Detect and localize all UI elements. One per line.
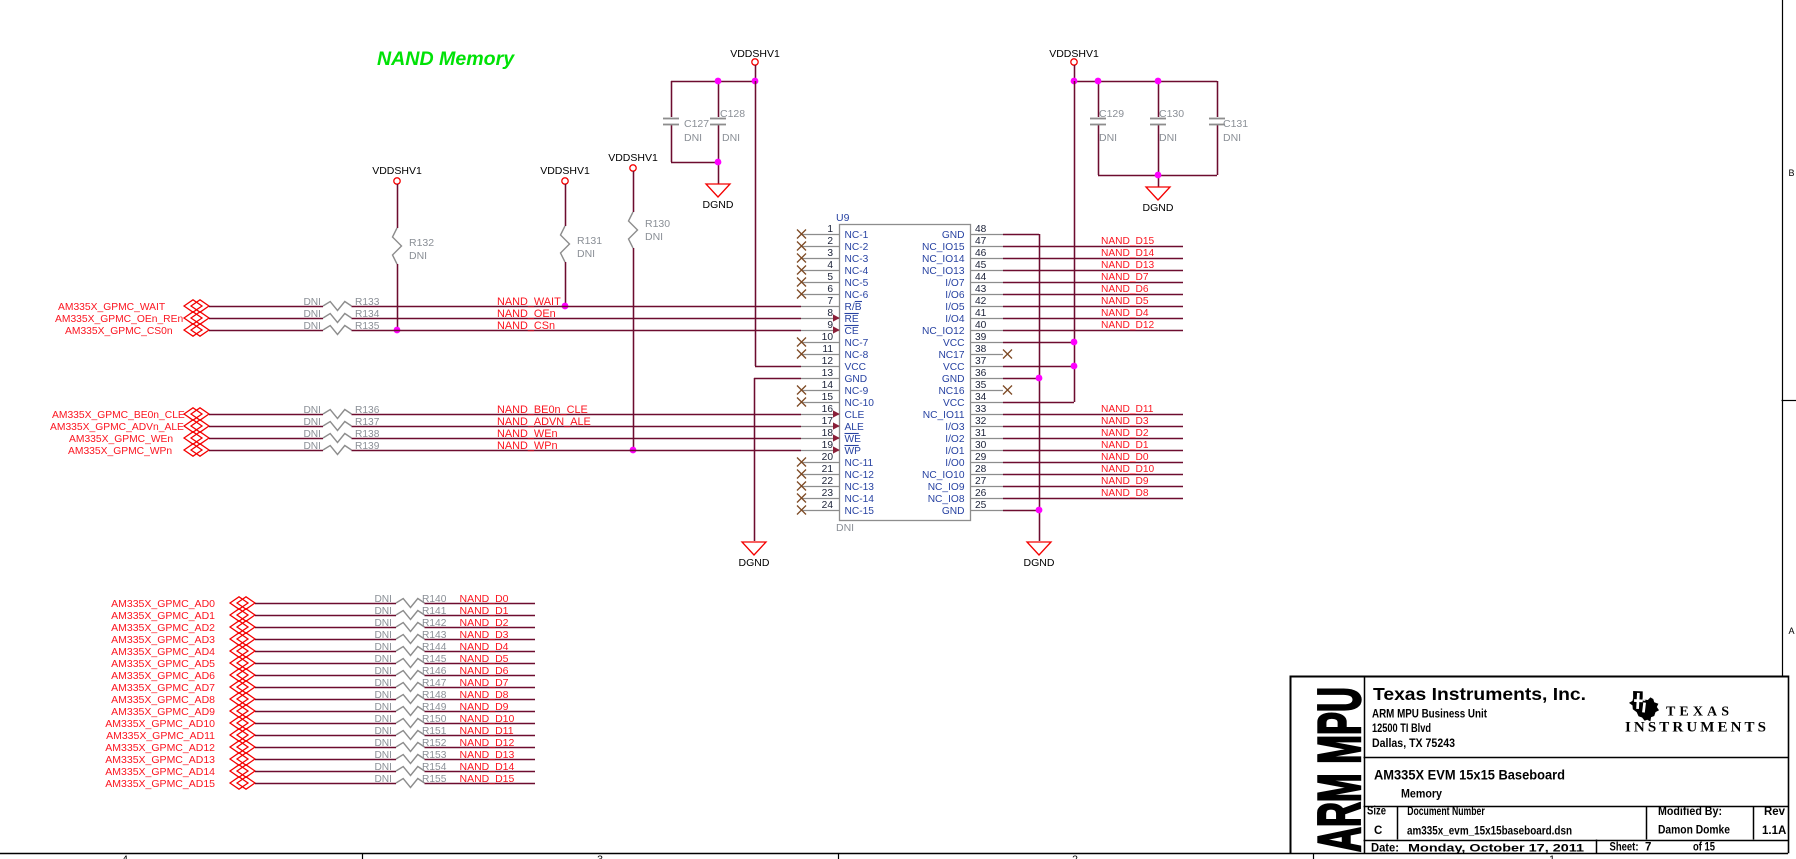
svg-text:2: 2 (1072, 854, 1078, 859)
svg-text:Sheet:: Sheet: (1610, 842, 1639, 854)
svg-text:6: 6 (827, 284, 833, 295)
svg-text:R143: R143 (422, 630, 447, 641)
svg-text:DNI: DNI (374, 618, 392, 629)
svg-text:I/O3: I/O3 (945, 422, 965, 433)
svg-text:26: 26 (975, 488, 987, 499)
svg-text:36: 36 (975, 368, 987, 379)
svg-text:R134: R134 (355, 309, 380, 320)
svg-text:3: 3 (827, 248, 833, 259)
svg-text:AM335X_GPMC_AD12: AM335X_GPMC_AD12 (105, 742, 215, 754)
svg-text:WP: WP (845, 446, 862, 457)
svg-text:34: 34 (975, 392, 987, 403)
svg-text:NAND_D2: NAND_D2 (460, 617, 509, 629)
svg-text:C128: C128 (720, 108, 745, 120)
svg-text:DNI: DNI (374, 762, 392, 773)
svg-text:NAND_D5: NAND_D5 (1101, 296, 1149, 307)
svg-text:DNI: DNI (374, 726, 392, 737)
svg-text:R138: R138 (355, 429, 380, 440)
svg-text:5: 5 (827, 272, 833, 283)
svg-text:I/O4: I/O4 (945, 314, 965, 325)
svg-text:ARM MPU: ARM MPU (1306, 687, 1373, 852)
svg-text:31: 31 (975, 428, 987, 439)
svg-text:NC-3: NC-3 (845, 254, 869, 265)
svg-text:14: 14 (822, 380, 834, 391)
svg-text:10: 10 (822, 332, 834, 343)
svg-text:NC_IO13: NC_IO13 (922, 266, 965, 277)
svg-text:NC_IO9: NC_IO9 (928, 482, 965, 493)
svg-text:DNI: DNI (1099, 132, 1117, 144)
svg-text:NAND_D0: NAND_D0 (1101, 452, 1149, 463)
svg-text:NC-4: NC-4 (845, 266, 869, 277)
svg-text:AM335X_GPMC_AD8: AM335X_GPMC_AD8 (111, 694, 215, 706)
svg-text:AM335X_GPMC_AD1: AM335X_GPMC_AD1 (111, 610, 215, 622)
svg-text:NC-2: NC-2 (845, 242, 869, 253)
svg-text:DNI: DNI (303, 429, 321, 440)
svg-text:R136: R136 (355, 405, 380, 416)
svg-text:CLE: CLE (845, 410, 865, 421)
svg-text:NAND_D7: NAND_D7 (1101, 272, 1149, 283)
svg-text:NC_IO15: NC_IO15 (922, 242, 965, 253)
svg-text:B: B (1788, 168, 1794, 178)
svg-text:DNI: DNI (374, 690, 392, 701)
svg-text:A: A (1788, 626, 1794, 636)
svg-text:AM335X_GPMC_AD10: AM335X_GPMC_AD10 (105, 718, 215, 730)
svg-text:19: 19 (822, 440, 834, 451)
svg-text:AM335X_GPMC_WAIT: AM335X_GPMC_WAIT (58, 302, 166, 313)
svg-text:DGND: DGND (703, 199, 734, 211)
svg-text:24: 24 (822, 500, 834, 511)
svg-text:4: 4 (122, 854, 128, 859)
svg-text:DGND: DGND (1143, 202, 1174, 214)
svg-text:13: 13 (822, 368, 834, 379)
svg-text:GND: GND (942, 506, 965, 517)
svg-text:DNI: DNI (1223, 132, 1241, 144)
svg-text:DNI: DNI (303, 405, 321, 416)
svg-text:43: 43 (975, 284, 987, 295)
svg-text:ALE: ALE (845, 422, 864, 433)
svg-text:NC-6: NC-6 (845, 290, 869, 301)
svg-text:R146: R146 (422, 666, 447, 677)
svg-text:RE: RE (845, 314, 859, 325)
svg-text:Date:: Date: (1371, 843, 1399, 855)
svg-text:DNI: DNI (374, 630, 392, 641)
svg-text:33: 33 (975, 404, 987, 415)
svg-text:AM335X_GPMC_AD11: AM335X_GPMC_AD11 (106, 730, 215, 742)
svg-text:NC-10: NC-10 (845, 398, 875, 409)
svg-text:Memory: Memory (1401, 789, 1443, 801)
svg-text:DNI: DNI (374, 678, 392, 689)
svg-text:AM335X_GPMC_AD3: AM335X_GPMC_AD3 (111, 634, 215, 646)
svg-text:DNI: DNI (374, 714, 392, 725)
svg-text:R144: R144 (422, 642, 447, 653)
svg-text:VDDSHV1: VDDSHV1 (730, 48, 780, 60)
svg-text:AM335X_GPMC_AD0: AM335X_GPMC_AD0 (111, 598, 215, 610)
svg-text:C130: C130 (1159, 108, 1184, 120)
svg-text:CE: CE (845, 326, 859, 337)
svg-text:GND: GND (942, 374, 965, 385)
svg-text:Modified By:: Modified By: (1658, 806, 1722, 818)
svg-text:16: 16 (822, 404, 834, 415)
svg-text:NAND_D5: NAND_D5 (460, 653, 509, 665)
svg-text:Size: Size (1367, 806, 1386, 818)
svg-text:NC_IO8: NC_IO8 (928, 494, 965, 505)
svg-text:29: 29 (975, 452, 987, 463)
svg-text:NAND_D9: NAND_D9 (1101, 476, 1149, 487)
svg-text:NAND_D15: NAND_D15 (1101, 236, 1155, 247)
svg-text:NAND_D3: NAND_D3 (1101, 416, 1149, 427)
svg-text:NAND_ADVN_ALE: NAND_ADVN_ALE (497, 416, 591, 428)
svg-text:am335x_evm_15x15baseboard.dsn: am335x_evm_15x15baseboard.dsn (1407, 826, 1572, 838)
svg-text:DNI: DNI (1159, 132, 1177, 144)
svg-text:DNI: DNI (374, 642, 392, 653)
svg-text:AM335X_GPMC_OEn_REn: AM335X_GPMC_OEn_REn (55, 314, 183, 325)
svg-text:R150: R150 (422, 714, 447, 725)
svg-text:I/O7: I/O7 (945, 278, 965, 289)
svg-text:GND: GND (845, 374, 868, 385)
svg-text:NC-7: NC-7 (845, 338, 869, 349)
svg-text:39: 39 (975, 332, 987, 343)
svg-text:NC_IO10: NC_IO10 (922, 470, 965, 481)
svg-text:VCC: VCC (943, 362, 965, 373)
svg-text:DNI: DNI (684, 132, 702, 144)
svg-text:TEXAS: TEXAS (1666, 705, 1729, 720)
svg-text:NC-1: NC-1 (845, 230, 869, 241)
svg-text:NAND_BE0n_CLE: NAND_BE0n_CLE (497, 404, 588, 416)
svg-text:NAND_CSn: NAND_CSn (497, 320, 555, 332)
svg-text:R148: R148 (422, 690, 447, 701)
svg-text:NC-14: NC-14 (845, 494, 875, 505)
svg-text:DNI: DNI (374, 750, 392, 761)
svg-text:NAND_D4: NAND_D4 (460, 641, 509, 653)
svg-text:NAND_D8: NAND_D8 (460, 689, 509, 701)
svg-text:NAND_D13: NAND_D13 (1101, 260, 1155, 271)
svg-text:NAND_D15: NAND_D15 (460, 773, 515, 785)
svg-text:AM335X_GPMC_BE0n_CLE: AM335X_GPMC_BE0n_CLE (52, 410, 185, 421)
svg-text:VDDSHV1: VDDSHV1 (1049, 48, 1099, 60)
svg-text:NAND_D1: NAND_D1 (460, 605, 509, 617)
svg-text:NAND_D13: NAND_D13 (460, 749, 515, 761)
svg-text:R/B: R/B (845, 302, 862, 313)
svg-text:of 15: of 15 (1693, 842, 1715, 854)
svg-text:NAND_D10: NAND_D10 (1101, 464, 1155, 475)
svg-text:DNI: DNI (303, 297, 321, 308)
svg-text:U9: U9 (836, 212, 850, 224)
svg-text:Dallas, TX 75243: Dallas, TX 75243 (1372, 738, 1455, 750)
svg-text:2: 2 (827, 236, 833, 247)
svg-text:C: C (1374, 825, 1382, 837)
svg-text:NC_IO11: NC_IO11 (923, 410, 965, 421)
svg-text:DNI: DNI (722, 132, 740, 144)
svg-text:11: 11 (822, 344, 833, 355)
svg-text:AM335X_GPMC_WPn: AM335X_GPMC_WPn (68, 446, 172, 457)
svg-text:NAND_OEn: NAND_OEn (497, 308, 556, 320)
svg-text:DNI: DNI (374, 594, 392, 605)
svg-text:40: 40 (975, 320, 987, 331)
svg-text:AM335X_GPMC_AD14: AM335X_GPMC_AD14 (105, 766, 215, 778)
svg-text:R147: R147 (422, 678, 447, 689)
svg-text:41: 41 (975, 308, 987, 319)
svg-text:35: 35 (975, 380, 987, 391)
svg-text:AM335X_GPMC_AD9: AM335X_GPMC_AD9 (111, 706, 215, 718)
svg-text:37: 37 (975, 356, 987, 367)
svg-text:C127: C127 (684, 118, 709, 130)
svg-text:AM335X_GPMC_WEn: AM335X_GPMC_WEn (69, 434, 173, 445)
svg-text:NAND_D7: NAND_D7 (460, 677, 509, 689)
svg-text:DGND: DGND (739, 557, 770, 569)
svg-text:NAND Memory: NAND Memory (377, 48, 515, 70)
svg-text:DNI: DNI (645, 231, 663, 243)
svg-text:I/O6: I/O6 (945, 290, 965, 301)
svg-text:AM335X_GPMC_AD5: AM335X_GPMC_AD5 (111, 658, 215, 670)
svg-text:12500 TI Blvd: 12500 TI Blvd (1372, 723, 1431, 735)
svg-text:I/O0: I/O0 (945, 458, 965, 469)
svg-text:I/O5: I/O5 (945, 302, 965, 313)
svg-text:C129: C129 (1099, 108, 1124, 120)
svg-text:7: 7 (1645, 842, 1651, 854)
svg-text:DNI: DNI (374, 606, 392, 617)
svg-text:ARM MPU Business Unit: ARM MPU Business Unit (1372, 709, 1487, 721)
svg-text:47: 47 (975, 236, 987, 247)
svg-text:DNI: DNI (374, 702, 392, 713)
svg-text:NAND_D11: NAND_D11 (1101, 404, 1154, 415)
svg-text:I/O1: I/O1 (945, 446, 965, 457)
svg-text:VCC: VCC (943, 398, 965, 409)
svg-text:NC_IO14: NC_IO14 (922, 254, 965, 265)
svg-text:7: 7 (827, 296, 833, 307)
svg-text:NAND_D14: NAND_D14 (1101, 248, 1155, 259)
svg-text:Monday, October 17, 2011: Monday, October 17, 2011 (1408, 843, 1584, 855)
svg-text:AM335X_GPMC_CS0n: AM335X_GPMC_CS0n (65, 326, 173, 337)
svg-text:R152: R152 (422, 738, 447, 749)
svg-text:NC-12: NC-12 (845, 470, 875, 481)
svg-text:1: 1 (827, 224, 833, 235)
svg-text:NC-5: NC-5 (845, 278, 869, 289)
svg-text:23: 23 (822, 488, 834, 499)
svg-text:15: 15 (822, 392, 834, 403)
svg-text:AM335X_GPMC_AD15: AM335X_GPMC_AD15 (105, 778, 215, 790)
svg-text:Document Number: Document Number (1407, 806, 1485, 818)
svg-text:R145: R145 (422, 654, 447, 665)
svg-text:46: 46 (975, 248, 987, 259)
svg-text:DNI: DNI (303, 309, 321, 320)
svg-text:NC-8: NC-8 (845, 350, 869, 361)
svg-text:NAND_WPn: NAND_WPn (497, 440, 558, 452)
svg-text:C131: C131 (1223, 118, 1248, 130)
svg-text:3: 3 (597, 854, 603, 859)
svg-text:R149: R149 (422, 702, 447, 713)
svg-text:VCC: VCC (845, 362, 867, 373)
svg-text:22: 22 (822, 476, 834, 487)
svg-text:VDDSHV1: VDDSHV1 (540, 165, 590, 177)
svg-text:NC_IO12: NC_IO12 (922, 326, 965, 337)
svg-text:48: 48 (975, 224, 987, 235)
svg-text:NAND_D12: NAND_D12 (1101, 320, 1155, 331)
svg-text:30: 30 (975, 440, 987, 451)
svg-text:NAND_D3: NAND_D3 (460, 629, 509, 641)
svg-text:VDDSHV1: VDDSHV1 (372, 165, 422, 177)
svg-text:25: 25 (975, 500, 987, 511)
svg-text:Damon Domke: Damon Domke (1658, 825, 1730, 837)
svg-text:NAND_D12: NAND_D12 (460, 737, 515, 749)
svg-text:R151: R151 (422, 726, 447, 737)
svg-text:AM335X_GPMC_AD7: AM335X_GPMC_AD7 (111, 682, 215, 694)
svg-text:28: 28 (975, 464, 987, 475)
svg-text:R142: R142 (422, 618, 447, 629)
svg-text:38: 38 (975, 344, 987, 355)
svg-text:NAND_D6: NAND_D6 (460, 665, 509, 677)
svg-text:4: 4 (827, 260, 833, 271)
svg-text:Texas Instruments, Inc.: Texas Instruments, Inc. (1373, 684, 1586, 704)
svg-text:AM335X_GPMC_AD13: AM335X_GPMC_AD13 (105, 754, 215, 766)
svg-text:DGND: DGND (1024, 557, 1055, 569)
svg-text:R137: R137 (355, 417, 380, 428)
svg-text:GND: GND (942, 230, 965, 241)
svg-text:AM335X_GPMC_ADVn_ALE: AM335X_GPMC_ADVn_ALE (50, 422, 184, 433)
svg-text:NC-15: NC-15 (845, 506, 875, 517)
svg-text:NAND_D14: NAND_D14 (460, 761, 515, 773)
svg-text:AM335X_GPMC_AD2: AM335X_GPMC_AD2 (111, 622, 215, 634)
svg-text:NC-11: NC-11 (845, 458, 874, 469)
svg-text:AM335X_GPMC_AD6: AM335X_GPMC_AD6 (111, 670, 215, 682)
svg-text:R141: R141 (422, 606, 447, 617)
svg-text:AM335X_GPMC_AD4: AM335X_GPMC_AD4 (111, 646, 215, 658)
svg-text:DNI: DNI (303, 417, 321, 428)
svg-text:NC17: NC17 (938, 350, 964, 361)
svg-text:12: 12 (822, 356, 834, 367)
svg-text:NAND_D2: NAND_D2 (1101, 428, 1149, 439)
svg-text:NAND_D0: NAND_D0 (460, 593, 509, 605)
svg-text:DNI: DNI (374, 666, 392, 677)
svg-text:NAND_D6: NAND_D6 (1101, 284, 1149, 295)
svg-text:Rev: Rev (1764, 806, 1786, 818)
svg-text:VDDSHV1: VDDSHV1 (608, 152, 658, 164)
svg-text:DNI: DNI (374, 738, 392, 749)
svg-text:NAND_D9: NAND_D9 (460, 701, 509, 713)
svg-text:NAND_D10: NAND_D10 (460, 713, 515, 725)
svg-text:NAND_D1: NAND_D1 (1101, 440, 1149, 451)
svg-text:R155: R155 (422, 774, 447, 785)
svg-text:R132: R132 (409, 237, 434, 249)
svg-text:42: 42 (975, 296, 987, 307)
svg-text:8: 8 (827, 308, 833, 319)
svg-text:DNI: DNI (577, 248, 595, 260)
svg-text:R153: R153 (422, 750, 447, 761)
svg-text:DNI: DNI (836, 522, 854, 534)
svg-text:27: 27 (975, 476, 987, 487)
svg-text:NAND_WEn: NAND_WEn (497, 428, 558, 440)
svg-text:NAND_D4: NAND_D4 (1101, 308, 1149, 319)
svg-text:I/O2: I/O2 (945, 434, 965, 445)
svg-text:R135: R135 (355, 321, 380, 332)
svg-text:NC16: NC16 (938, 386, 964, 397)
svg-text:NC-13: NC-13 (845, 482, 875, 493)
svg-text:DNI: DNI (374, 774, 392, 785)
svg-text:INSTRUMENTS: INSTRUMENTS (1625, 720, 1766, 736)
svg-text:DNI: DNI (303, 321, 321, 332)
svg-text:R154: R154 (422, 762, 447, 773)
svg-text:DNI: DNI (374, 654, 392, 665)
svg-text:17: 17 (822, 416, 834, 427)
svg-text:21: 21 (822, 464, 834, 475)
svg-text:NAND_D11: NAND_D11 (460, 725, 514, 737)
svg-text:DNI: DNI (409, 250, 427, 262)
svg-text:45: 45 (975, 260, 987, 271)
svg-text:32: 32 (975, 416, 987, 427)
svg-text:R139: R139 (355, 441, 380, 452)
svg-text:DNI: DNI (303, 441, 321, 452)
svg-text:18: 18 (822, 428, 834, 439)
svg-text:44: 44 (975, 272, 987, 283)
svg-text:R130: R130 (645, 218, 670, 230)
svg-text:1.1A: 1.1A (1762, 825, 1786, 837)
svg-text:VCC: VCC (943, 338, 965, 349)
svg-text:NAND_D8: NAND_D8 (1101, 488, 1149, 499)
svg-text:WE: WE (845, 434, 862, 445)
svg-text:NC-9: NC-9 (845, 386, 869, 397)
svg-text:R133: R133 (355, 297, 380, 308)
svg-text:AM335X EVM 15x15 Baseboard: AM335X EVM 15x15 Baseboard (1374, 767, 1565, 783)
svg-text:R131: R131 (577, 235, 602, 247)
svg-text:9: 9 (827, 320, 833, 331)
svg-text:NAND_WAIT: NAND_WAIT (497, 296, 561, 308)
svg-text:R140: R140 (422, 594, 447, 605)
svg-text:20: 20 (822, 452, 834, 463)
